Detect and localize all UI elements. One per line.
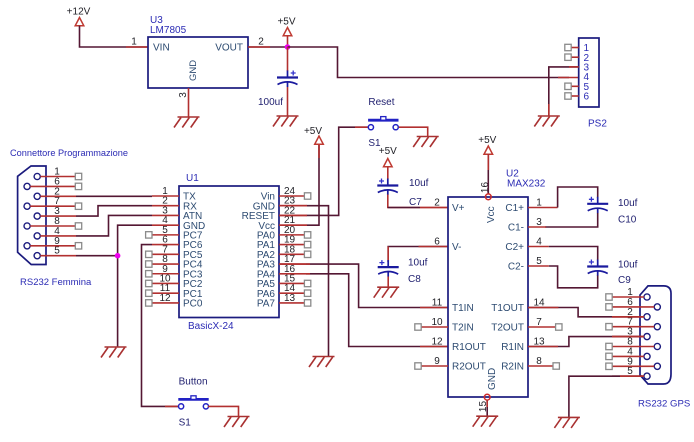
switch S1 (reset switch)	[368, 117, 398, 130]
svg-text:RS232 Femmina: RS232 Femmina	[20, 277, 92, 288]
ground under U2	[473, 416, 499, 427]
svg-text:+12V: +12V	[67, 7, 91, 18]
wire U2 C1+ pin 1 to C10	[528, 207, 558, 209]
svg-text:C7: C7	[409, 197, 422, 208]
svg-text:2: 2	[258, 37, 264, 48]
ground below U1	[309, 357, 335, 368]
svg-text:LM7805: LM7805	[150, 25, 187, 36]
power symbol +12V (input supply)	[67, 7, 91, 26]
switch S1 (button switch)	[178, 396, 208, 409]
wire switch S1 to ground	[399, 127, 428, 136]
wire C8 to ground	[387, 277, 389, 288]
svg-text:MAX232: MAX232	[507, 179, 546, 190]
wire C 100uf to ground	[287, 87, 289, 116]
wire U1 PC6 pin 6 to button	[142, 245, 179, 407]
svg-text:GND: GND	[487, 368, 498, 390]
wire U1 RESET pin 22 to switch S1	[306, 127, 368, 215]
U2 pin 15 connection circle	[484, 394, 490, 400]
U1 left pin stubs	[146, 196, 179, 306]
ground below DB9 femmina	[101, 347, 127, 358]
DB9 femmina pin numbers	[54, 167, 60, 257]
capacitor C8 10uf	[378, 260, 399, 277]
ground right of button	[224, 417, 250, 428]
svg-text:V-: V-	[452, 242, 461, 253]
svg-text:12: 12	[431, 337, 443, 348]
ground under 100uf cap	[273, 116, 299, 127]
connector RS232 Femmina (DB9)	[18, 166, 46, 265]
power symbol +5V (at U1 Vcc)	[304, 126, 323, 144]
svg-text:10uf: 10uf	[618, 198, 638, 209]
wire U3 GND pin 3 to ground	[188, 88, 190, 117]
wire U1 GND pin 4 down to ground	[118, 225, 152, 347]
junction node GND net junction	[115, 253, 121, 259]
U2 pin numbers	[431, 182, 545, 413]
wire +5V to C7	[387, 167, 389, 179]
PS2 unconnected pins 1 2 5 6	[565, 44, 579, 99]
U2 T2OUT pin 7 unconnected	[528, 324, 562, 330]
svg-text:T1OUT: T1OUT	[491, 303, 524, 314]
wire U1 Vcc pin 21 to +5V	[306, 145, 319, 226]
ground under U3	[174, 117, 200, 128]
svg-text:PA7: PA7	[257, 299, 276, 310]
GPS DB9 pin numbers	[627, 287, 633, 377]
svg-text:C10: C10	[618, 215, 637, 226]
svg-text:T1IN: T1IN	[452, 303, 474, 314]
wire C7 to U2 V+ pin 2	[388, 195, 448, 208]
svg-text:VIN: VIN	[153, 43, 170, 54]
svg-text:+5V: +5V	[379, 146, 397, 157]
wire U2 T1OUT pin 14 to GPS pin 2	[528, 308, 644, 317]
svg-text:S1: S1	[179, 417, 192, 428]
U2 unconnected pins T2IN R2OUT	[415, 324, 448, 369]
connector PS2	[579, 38, 599, 107]
wire PS2 pin 3 to ground	[549, 67, 579, 116]
svg-text:R2IN: R2IN	[501, 362, 524, 373]
svg-text:1: 1	[131, 37, 137, 48]
wire DB9 pin 4 to U1 ATN	[76, 215, 152, 236]
U1 right pin stubs	[279, 193, 311, 306]
connector RS232 GPS (DB9)	[640, 286, 671, 384]
power symbol +5V (at U2 Vcc)	[478, 135, 496, 154]
svg-text:Reset: Reset	[368, 97, 394, 108]
ground right of reset switch	[413, 137, 439, 148]
wire U2 V- pin 6 to C8	[388, 247, 448, 263]
junction node +5V VOUT junction	[285, 44, 291, 50]
wire node down to C 100uf	[287, 47, 289, 71]
regulator U3 LM7805	[148, 15, 248, 88]
wire U2 GND pin 15 to ground	[486, 400, 488, 416]
svg-text:6: 6	[584, 92, 590, 103]
power symbol +5V (at VOUT node)	[277, 17, 295, 36]
svg-text:6: 6	[434, 237, 440, 248]
IC U2 MAX232	[448, 169, 546, 398]
wire DB9 pin 3 to U1 RX	[76, 206, 152, 216]
svg-text:+5V: +5V	[277, 17, 295, 28]
svg-text:BasicX-24: BasicX-24	[188, 321, 234, 332]
power symbol +5V (at C7)	[379, 146, 397, 167]
svg-text:V+: V+	[452, 203, 465, 214]
svg-text:10uf: 10uf	[408, 258, 428, 269]
capacitor C7 10uf	[377, 179, 398, 196]
ground under PS2	[534, 116, 560, 127]
U2 R2IN pin 8 unconnected	[528, 363, 559, 369]
wire +5V arrow to node	[287, 36, 289, 47]
svg-text:Vcc: Vcc	[486, 206, 497, 223]
svg-text:C9: C9	[618, 275, 631, 286]
wire +12V to U3 VIN pin 1	[80, 26, 149, 47]
GPS DB9 pin stubs and unconnected terminals	[606, 294, 654, 376]
svg-text:U1: U1	[186, 173, 199, 184]
wire DB9 pin 2 to U1 TX	[76, 195, 152, 197]
capacitor C10 10uf	[587, 197, 608, 214]
svg-text:3: 3	[178, 92, 189, 98]
wire U1 GND pin 23 down to ground	[306, 206, 329, 357]
ground under C8	[374, 287, 400, 298]
svg-text:T2OUT: T2OUT	[491, 323, 524, 334]
svg-text:C8: C8	[408, 274, 421, 285]
svg-text:GND: GND	[188, 60, 199, 81]
DB9 femmina pin stubs and unconnected terminals	[30, 173, 82, 255]
svg-text:PS2: PS2	[588, 119, 607, 130]
svg-text:2: 2	[434, 198, 440, 209]
U2 pin 16 connection circle	[485, 194, 491, 200]
svg-text:C2-: C2-	[508, 262, 524, 273]
wire +5V node to PS2 pin 4	[288, 47, 570, 78]
svg-text:10uf: 10uf	[618, 260, 638, 271]
svg-text:R1OUT: R1OUT	[452, 342, 486, 353]
svg-text:+5V: +5V	[478, 135, 496, 146]
wire DB9 pin 5 to GND node	[76, 255, 118, 257]
wire U2 Vcc pin 16 to +5V	[487, 154, 489, 194]
svg-text:16: 16	[480, 182, 491, 194]
svg-text:10uf: 10uf	[409, 178, 429, 189]
microcontroller U1 BasicX-24	[179, 173, 279, 332]
wire U3 VOUT pin 2 to +5V node	[248, 46, 288, 48]
U3 pin numbers 1 2 3	[131, 37, 264, 98]
wire C10 to U2 C1- pin 3	[545, 213, 598, 227]
capacitor C 100uf	[277, 71, 298, 88]
wire button S1 to ground	[208, 406, 239, 416]
wire U2 C2+ pin 4 to C9	[528, 246, 549, 248]
ground under GPS pin 5 wire	[554, 417, 580, 428]
svg-text:100uf: 100uf	[258, 97, 283, 108]
wire U1 PA3 pin 17 to U2 T1IN	[306, 264, 448, 307]
U1 pin numbers 1-24	[159, 186, 295, 304]
svg-text:RS232 GPS: RS232 GPS	[638, 399, 690, 410]
wire GPS pin 3 to U2 R1IN pin 13	[528, 337, 644, 347]
wire U1 PA4 pin 16 to U2 R1OUT	[306, 274, 448, 347]
svg-text:R1IN: R1IN	[501, 342, 524, 353]
svg-text:R2OUT: R2OUT	[452, 362, 486, 373]
svg-text:11: 11	[432, 298, 443, 309]
wire C9 to U2 C2- pin 5	[549, 266, 598, 288]
svg-text:T2IN: T2IN	[452, 323, 474, 334]
wire GPS pin 5 to ground	[569, 376, 644, 417]
capacitor C9 10uf	[587, 260, 608, 277]
svg-text:PC0: PC0	[183, 299, 203, 310]
svg-text:VOUT: VOUT	[215, 43, 243, 54]
svg-text:Connettore Programmazione: Connettore Programmazione	[10, 148, 128, 158]
svg-text:Button: Button	[179, 376, 208, 387]
svg-text:C1-: C1-	[508, 223, 524, 234]
svg-text:C2+: C2+	[505, 242, 524, 253]
svg-text:+5V: +5V	[304, 126, 322, 137]
svg-text:C1+: C1+	[505, 203, 524, 214]
